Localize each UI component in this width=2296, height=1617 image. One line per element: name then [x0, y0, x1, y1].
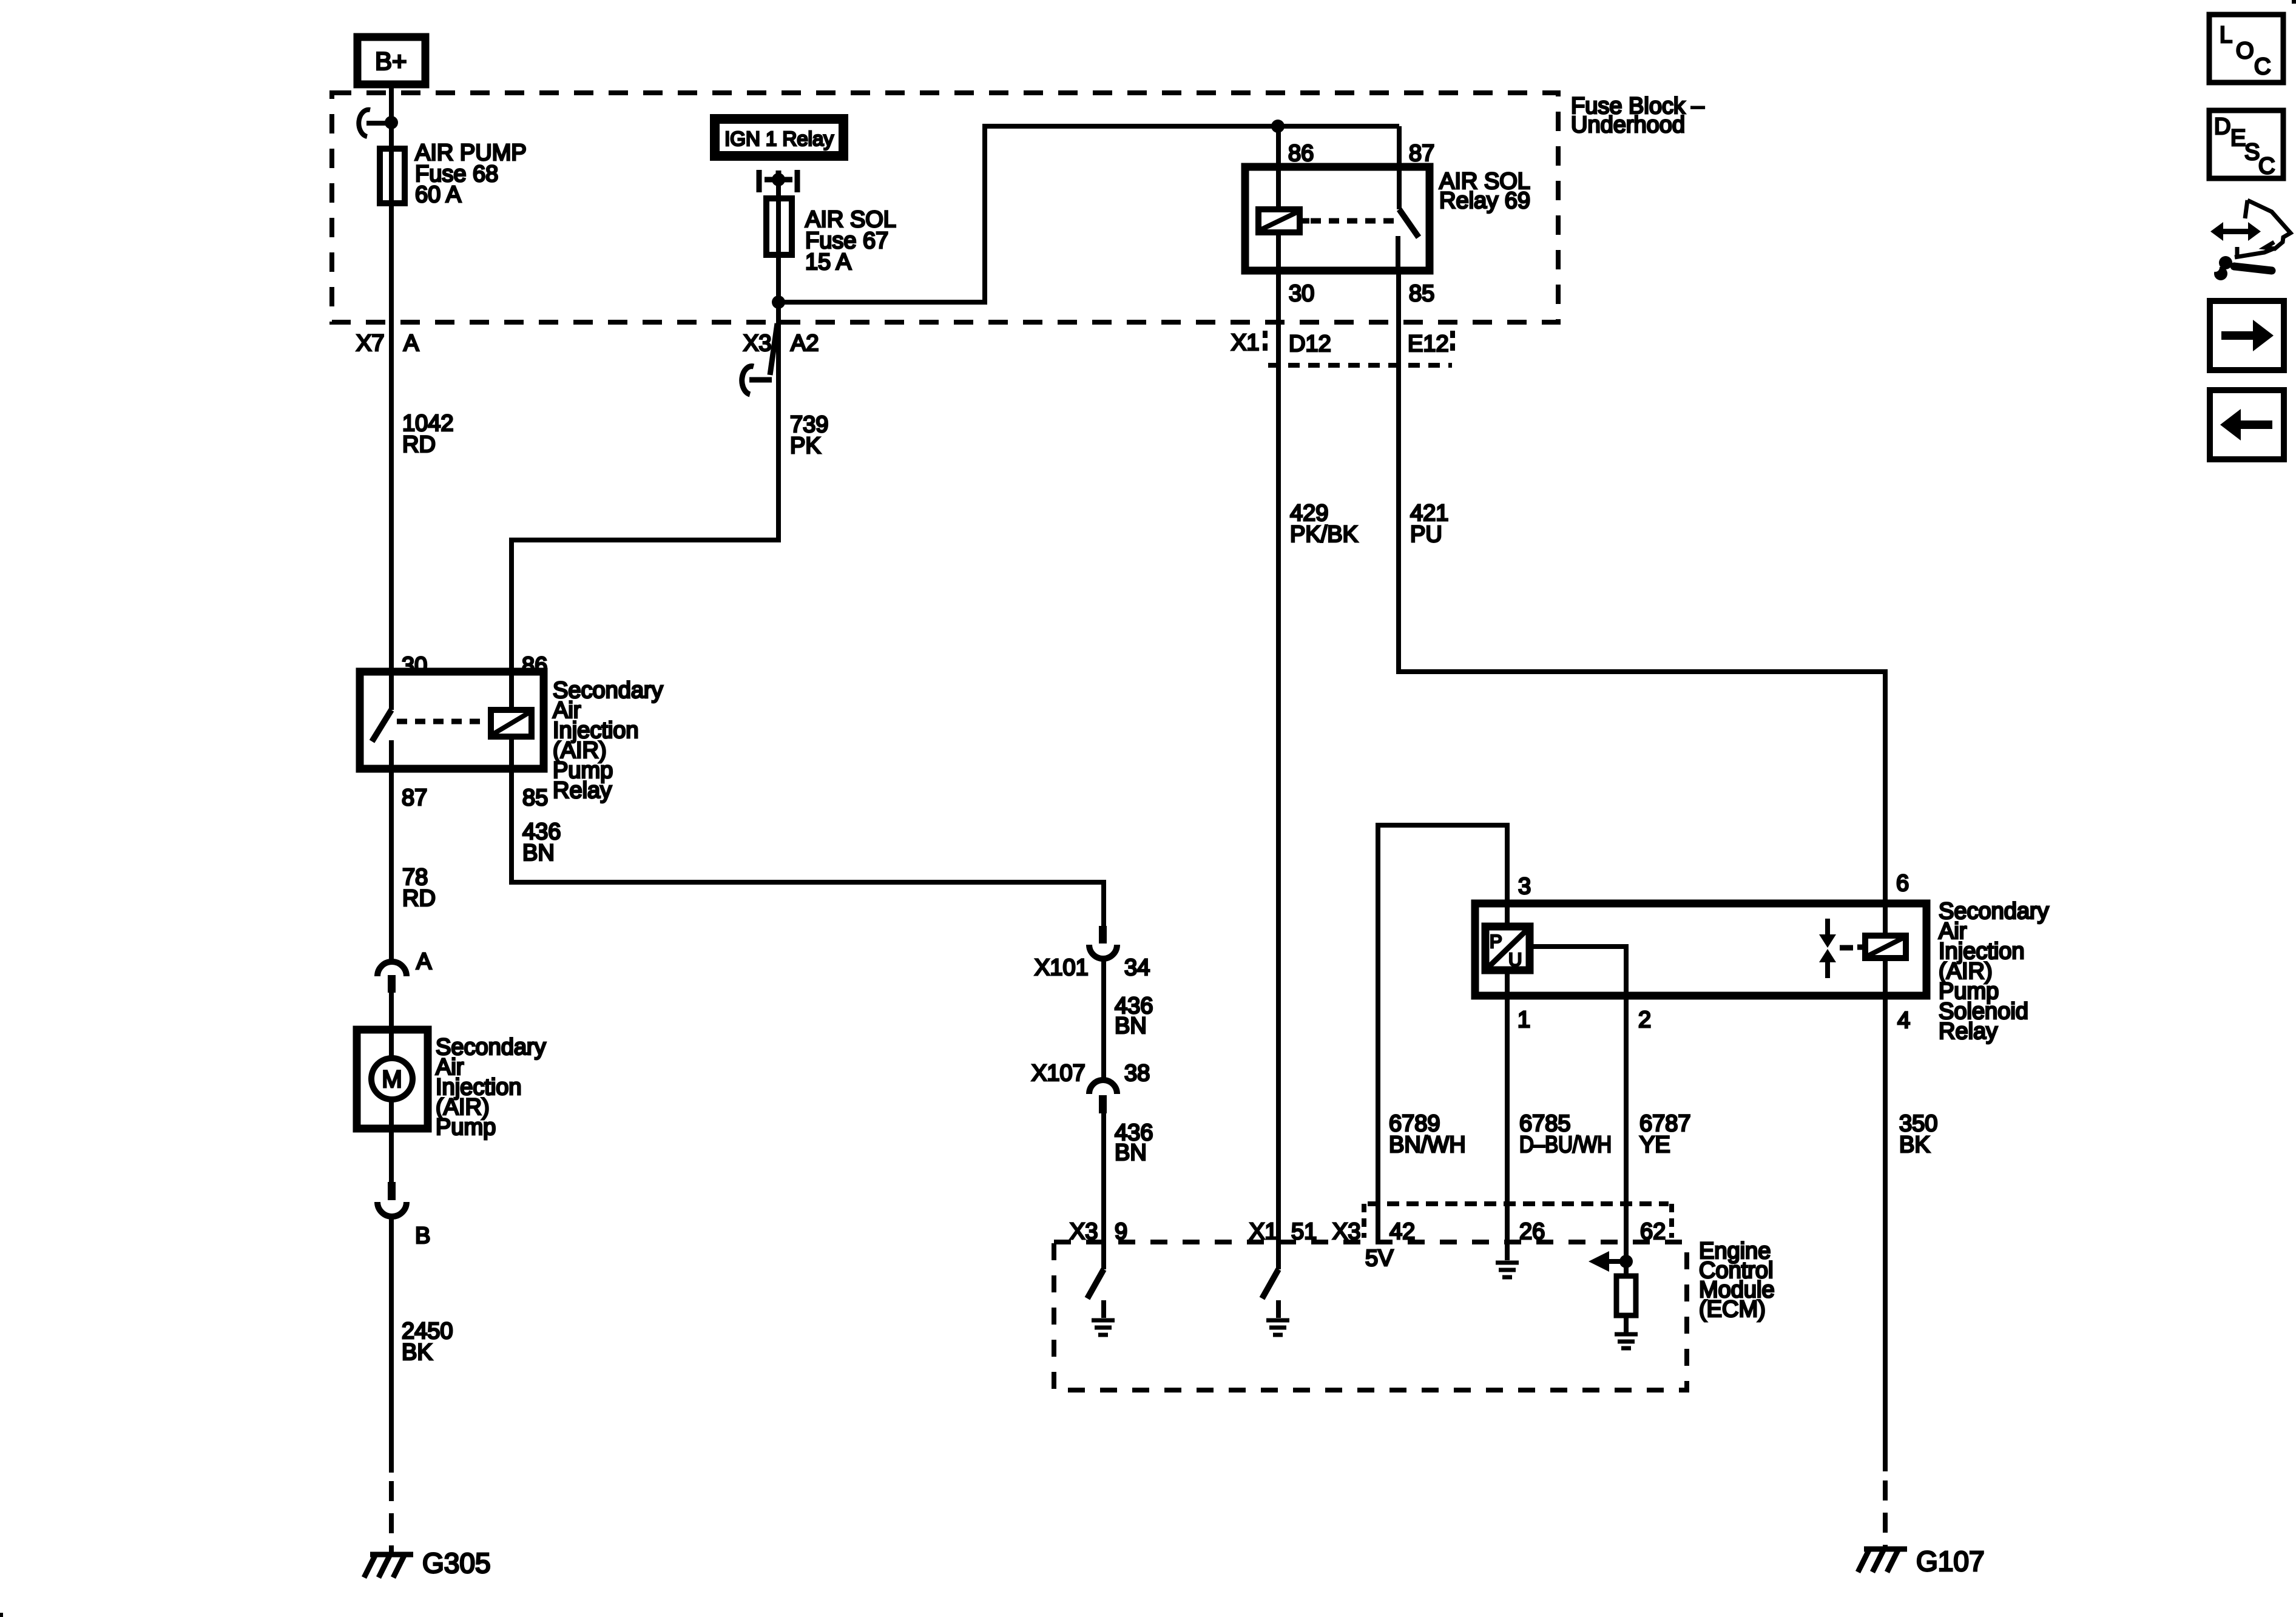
- svg-text:X1: X1: [1231, 330, 1259, 356]
- wire P/U output to pin 2: [1530, 947, 1626, 996]
- resistor internal pin 62: [1616, 1261, 1636, 1332]
- svg-text:34: 34: [1124, 955, 1150, 981]
- svg-text:15 A: 15 A: [805, 249, 852, 275]
- svg-text:85: 85: [522, 785, 548, 811]
- pump relay switch contact: [372, 710, 391, 769]
- wire label 421 PU: [1410, 501, 1448, 547]
- svg-text:PK/BK: PK/BK: [1290, 522, 1358, 547]
- svg-text:B: B: [415, 1223, 430, 1249]
- wire pump motor to connector B: [389, 1099, 394, 1183]
- svg-text:30: 30: [402, 653, 427, 678]
- svg-text:86: 86: [522, 653, 547, 678]
- svg-text:O: O: [2236, 38, 2254, 64]
- svg-text:PU: PU: [1410, 522, 1442, 547]
- svg-text:(ECM): (ECM): [1699, 1297, 1766, 1322]
- solenoid valve symbol: [1819, 919, 1853, 978]
- connector label X7 pin A: [356, 331, 419, 356]
- connector X101 pin 34: [1035, 926, 1150, 981]
- fuse block underhood dashed border: [332, 93, 1558, 322]
- svg-text:62: 62: [1640, 1219, 1666, 1244]
- connector X107 pin 38: [1032, 1061, 1150, 1113]
- svg-text:L: L: [2220, 22, 2232, 48]
- ground G107: [1858, 1545, 1985, 1577]
- relay K69 AIR SOL Relay box: [1245, 167, 1430, 271]
- splice hook at B+ feed: [359, 110, 388, 137]
- svg-text:6: 6: [1896, 871, 1909, 896]
- bus bar tap below IGN 1 relay: [759, 170, 797, 192]
- wire B+ to AIR pump relay pin 30: [389, 84, 394, 710]
- svg-text:4: 4: [1897, 1008, 1910, 1033]
- wire label 739 PK: [790, 412, 828, 459]
- svg-text:9: 9: [1115, 1219, 1127, 1244]
- svg-text:IGN 1 Relay: IGN 1 Relay: [724, 127, 834, 150]
- IGN 1 Relay feed box: [715, 119, 843, 156]
- node junction feed to relay 69 pin 86: [1271, 120, 1285, 133]
- wire label 78 RD: [402, 865, 436, 911]
- svg-text:X7: X7: [356, 331, 384, 356]
- ground G305: [364, 1547, 491, 1579]
- relay 69 coil link dashed: [1300, 218, 1309, 224]
- svg-text:G107: G107: [1916, 1545, 1985, 1577]
- label 5V reference: [1365, 1246, 1394, 1271]
- svg-text:85: 85: [1409, 281, 1434, 306]
- svg-text:X3: X3: [1070, 1219, 1098, 1244]
- node junction below fuse 67: [772, 295, 785, 309]
- svg-text:Relay 69: Relay 69: [1439, 188, 1530, 214]
- svg-text:87: 87: [1409, 141, 1434, 166]
- svg-text:86: 86: [1288, 141, 1314, 166]
- label Secondary Air Injection AIR Pump: [436, 1035, 546, 1140]
- wire label 6787 YE: [1639, 1111, 1691, 1158]
- wire label 350 BK: [1899, 1111, 1937, 1158]
- svg-text:D–BU/WH: D–BU/WH: [1519, 1132, 1612, 1158]
- svg-text:G305: G305: [422, 1547, 491, 1579]
- connector terminal B of AIR pump: [377, 1182, 430, 1249]
- wire dashed continuation to G107: [1883, 1480, 1888, 1547]
- DESC navigation box: [2209, 110, 2283, 179]
- wire label 2450 BK: [402, 1318, 453, 1365]
- solenoid coil: [1857, 903, 1906, 996]
- ground internal pin 9: [1092, 1320, 1115, 1335]
- svg-text:A: A: [416, 949, 432, 974]
- wire label 436 BN: [1115, 993, 1153, 1039]
- wire from fuse 67 junction right and up to relay 69: [778, 126, 1399, 302]
- relay 69 switch contact: [1398, 126, 1419, 271]
- label Engine Control Module ECM: [1699, 1238, 1775, 1322]
- svg-text:B+: B+: [375, 47, 407, 75]
- node junction at pin 62: [1619, 1255, 1633, 1268]
- wire fuse 67 feed: [776, 180, 781, 540]
- label Secondary Air Injection AIR Pump Relay: [553, 678, 663, 803]
- fuse F67 AIR SOL 15A: [766, 198, 896, 275]
- svg-text:X3: X3: [743, 331, 771, 356]
- page corner mark top right: [2292, 0, 2296, 4]
- svg-text:38: 38: [1124, 1061, 1150, 1086]
- wire label 1042 RD: [402, 411, 454, 457]
- svg-text:87: 87: [402, 785, 427, 811]
- pressure transducer P/U: [1485, 927, 1530, 970]
- svg-text:E: E: [2230, 126, 2246, 151]
- ground internal pin 62: [1615, 1334, 1638, 1348]
- pump relay pin labels: [402, 653, 548, 811]
- pump relay coil link dashed: [397, 719, 491, 724]
- service tool icon double arrow: [2210, 222, 2261, 241]
- svg-text:YE: YE: [1639, 1132, 1670, 1158]
- svg-text:C: C: [2258, 154, 2275, 179]
- svg-text:51: 51: [1291, 1219, 1317, 1244]
- signal arrow at pin 62: [1589, 1251, 1626, 1272]
- connector X3 pin A2 clip symbol: [742, 323, 777, 394]
- wire label 436 BN below relay: [522, 819, 561, 866]
- ground internal pin 26: [1496, 1263, 1519, 1277]
- wire 436 BN X107 to ECM pin 9: [1101, 1113, 1106, 1269]
- svg-text:X3: X3: [1332, 1219, 1360, 1244]
- svg-text:BN/WH: BN/WH: [1389, 1132, 1466, 1158]
- motor M1 Secondary AIR pump: [357, 1030, 428, 1129]
- pump relay coil: [491, 672, 532, 769]
- svg-text:X101: X101: [1035, 955, 1089, 981]
- svg-text:D: D: [2214, 114, 2230, 140]
- ECM driver switch pin 51: [1262, 1242, 1278, 1318]
- connector terminal A of AIR pump: [377, 949, 432, 993]
- svg-text:M: M: [382, 1066, 402, 1093]
- connector X1 labels D12 E12: [1231, 330, 1449, 357]
- wire 6785 D-BU/WH pin 1 to ECM 26: [1505, 970, 1510, 1260]
- service tool icon hood outline: [2235, 200, 2291, 257]
- pin labels 3 and 6: [1518, 871, 1909, 899]
- wire label 6789 BN/WH: [1389, 1111, 1466, 1158]
- wire 429 PK/BK relay 30 to ECM 51: [1276, 271, 1281, 1242]
- label Secondary Air Injection AIR Pump Solenoid Relay: [1939, 899, 2049, 1044]
- B+ battery feed box: [357, 37, 425, 84]
- wire 6789 BN/WH ECM 42 to solenoid relay pin 3: [1378, 825, 1507, 1242]
- svg-text:1: 1: [1518, 1007, 1530, 1033]
- wire label 436 BN lower: [1115, 1120, 1153, 1166]
- wire label 6785 D-BU/WH: [1519, 1111, 1612, 1158]
- pin labels 1 2 4: [1518, 1007, 1910, 1033]
- solenoid relay assembly box: [1475, 903, 1926, 996]
- svg-text:X107: X107: [1032, 1061, 1086, 1086]
- svg-text:RD: RD: [402, 886, 436, 911]
- svg-text:30: 30: [1289, 281, 1314, 306]
- svg-text:BN: BN: [1115, 1140, 1147, 1166]
- svg-text:BK: BK: [1899, 1132, 1930, 1158]
- wire dashed continuation to G305: [389, 1481, 394, 1553]
- wire label 429 PK/BK: [1290, 501, 1358, 547]
- wire connector A to pump motor: [389, 993, 394, 1058]
- forward arrow navigation box: [2210, 301, 2284, 370]
- label AIR SOL Relay 69: [1439, 169, 1530, 214]
- connector X3 dotted outline at ECM: [1364, 1204, 1672, 1238]
- svg-text:U: U: [1508, 949, 1522, 970]
- ECM dashed border: [1054, 1242, 1687, 1390]
- node junction at bus bar: [772, 173, 785, 186]
- label Fuse Block - Underhood: [1571, 93, 1705, 138]
- wire 350 BK pin 4 to ground G107: [1883, 996, 1888, 1471]
- wire 78 RD relay 87 to pump connector A: [389, 769, 394, 962]
- svg-text:BN: BN: [1115, 1013, 1147, 1039]
- wire 739 PK down and left to pump relay 86: [512, 323, 778, 672]
- connector X1 pins D12 E12 dashed outline: [1265, 331, 1453, 365]
- svg-text:Relay: Relay: [1939, 1019, 1997, 1044]
- svg-text:60 A: 60 A: [415, 182, 462, 208]
- svg-text:PK: PK: [790, 433, 821, 459]
- relay 69 coil: [1258, 126, 1300, 271]
- ECM driver switch pin 9: [1087, 1269, 1104, 1318]
- svg-text:5V: 5V: [1365, 1246, 1394, 1271]
- svg-text:2: 2: [1638, 1007, 1651, 1033]
- svg-text:BK: BK: [402, 1340, 433, 1365]
- wire 436 BN X101 to X107: [1101, 959, 1106, 1080]
- node junction below B+: [385, 116, 398, 129]
- svg-text:BN: BN: [522, 840, 555, 866]
- connector label X3 pin A2: [743, 331, 819, 356]
- svg-text:A: A: [403, 331, 419, 356]
- svg-text:A2: A2: [791, 331, 819, 356]
- svg-text:3: 3: [1518, 874, 1531, 899]
- wire 2450 BK to ground: [389, 1217, 394, 1473]
- wire 421 PU relay 85 to solenoid relay pin 6: [1399, 271, 1885, 903]
- svg-text:E12: E12: [1408, 331, 1449, 357]
- ECM pin labels: [1070, 1219, 1666, 1244]
- fuse F68 AIR PUMP 60A: [380, 140, 527, 208]
- svg-text:D12: D12: [1289, 331, 1331, 357]
- wire 436 BN relay 85 to connector X101: [512, 769, 1104, 927]
- wire 6787 YE pin 2 to ECM 62: [1624, 996, 1629, 1261]
- LOC navigation box: [2209, 15, 2283, 83]
- page corner mark bottom left: [0, 1613, 3, 1617]
- svg-text:Relay: Relay: [553, 778, 612, 803]
- relay 69 pin labels: [1288, 141, 1434, 306]
- svg-text:S: S: [2244, 140, 2260, 165]
- svg-text:C: C: [2254, 54, 2271, 79]
- svg-text:X1: X1: [1249, 1219, 1277, 1244]
- ground internal pin 51: [1266, 1320, 1289, 1335]
- svg-text:26: 26: [1519, 1219, 1545, 1244]
- svg-text:Pump: Pump: [436, 1115, 496, 1140]
- svg-text:P: P: [1490, 931, 1502, 952]
- back arrow navigation box: [2210, 390, 2284, 459]
- service tool icon wrench: [2210, 256, 2272, 280]
- svg-text:RD: RD: [402, 432, 436, 457]
- svg-text:42: 42: [1389, 1219, 1415, 1244]
- relay AIR pump relay box: [360, 672, 544, 769]
- svg-text:Underhood: Underhood: [1571, 112, 1685, 138]
